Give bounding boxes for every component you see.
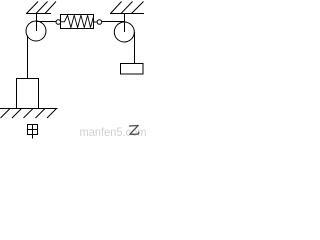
ground line [0,108,58,110]
spring scale left hook [56,20,61,25]
pulley P2 [114,22,134,42]
spring scale right hook lead [94,21,98,23]
ceiling mount right: hatch 3 [132,2,144,14]
rope: P2 down to block 乙 [134,32,136,63]
ceiling mount right: line [110,13,144,15]
rope: P1 down to block 甲 [27,36,29,79]
ceiling mount left: hatch 1 [27,2,39,14]
spring scale right hook [97,20,102,25]
ground hatch 3 [24,109,34,119]
ceiling mount right: hatch 1 [111,2,122,14]
rope: P1 top to spring-scale left hook [37,21,56,23]
rope: right hook to pulley P2 [102,21,125,23]
spring scale body [61,15,94,29]
pulley P2 axle [124,14,126,33]
label 乙 (drawn glyph) [129,126,139,135]
ground hatch 1 [1,109,11,119]
ceiling mount left: hatch 2 [36,2,48,14]
ground hatch 5 [47,109,57,119]
ceiling mount left: hatch 3 [45,2,56,14]
block 甲 (block on ground) [17,79,39,109]
pulley P1 [26,21,46,41]
ground hatch 4 [36,109,46,119]
ceiling mount right: hatch 2 [121,2,133,14]
block 乙 (hanging weight) [121,64,144,75]
ground hatch 2 [12,109,22,119]
spring coil [61,15,94,27]
label 甲 (drawn glyph) [28,125,38,139]
pulley P1 axle [36,14,38,32]
ceiling mount left: line [26,13,51,15]
